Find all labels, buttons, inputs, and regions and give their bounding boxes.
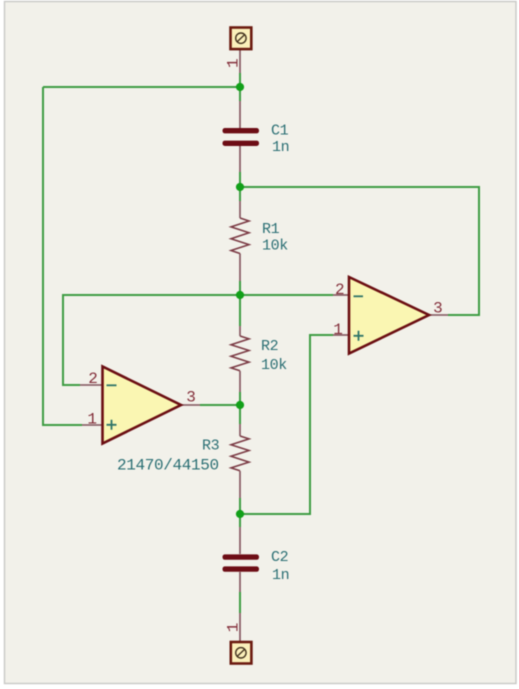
pin R1.1 stub xyxy=(239,201,241,218)
wire top pin to node A xyxy=(239,73,241,87)
svg-text:10k: 10k xyxy=(262,238,288,255)
svg-text:2: 2 xyxy=(88,370,98,388)
svg-text:21470/44150: 21470/44150 xyxy=(117,457,219,475)
junction node E xyxy=(236,510,244,518)
pin U1.3 stub xyxy=(429,314,448,316)
junction node A xyxy=(236,83,244,91)
wire U2 output to node D xyxy=(200,404,240,406)
pin R1.2 stub xyxy=(239,254,241,282)
junction node C xyxy=(236,291,244,299)
wire left vertical to pin1 of U2 xyxy=(43,87,82,425)
U2 minus mark xyxy=(107,384,117,386)
svg-text:C1: C1 xyxy=(271,123,289,140)
pin J2.1 stub xyxy=(239,613,241,642)
op-amp U1 (right) xyxy=(333,277,442,354)
resistor R1 xyxy=(231,218,288,255)
pin U2.3 stub xyxy=(181,404,200,406)
svg-text:R2: R2 xyxy=(261,338,278,355)
pin C1.2 stub xyxy=(239,146,241,172)
svg-text:1: 1 xyxy=(333,321,343,339)
svg-text:1: 1 xyxy=(87,411,97,429)
junction node B xyxy=(236,183,244,191)
resistor R2 xyxy=(231,336,287,374)
svg-text:1: 1 xyxy=(225,58,243,68)
pin U1.2 stub xyxy=(333,294,349,296)
wire net A horizontal xyxy=(43,73,479,613)
svg-text:1n: 1n xyxy=(272,567,289,584)
svg-text:R1: R1 xyxy=(262,221,280,238)
pin U2.2 stub xyxy=(80,384,103,386)
svg-text:R3: R3 xyxy=(202,438,220,455)
svg-text:2: 2 xyxy=(335,281,345,299)
wire node B to R1 xyxy=(239,187,241,201)
U1 minus mark xyxy=(354,295,364,297)
junction node D xyxy=(236,401,244,409)
pin C2.2 stub xyxy=(239,572,241,592)
svg-text:3: 3 xyxy=(186,389,196,407)
resistor R3 xyxy=(117,436,249,475)
wire C2 to bottom pin xyxy=(239,592,241,613)
svg-text:10k: 10k xyxy=(261,357,287,374)
pin C1.1 stub xyxy=(239,101,241,128)
wire node C to left, down to pin2 of U2 xyxy=(63,295,240,385)
wire R2 to node D xyxy=(239,392,241,405)
svg-text:3: 3 xyxy=(433,300,443,318)
wire node C to pin2 of U1 xyxy=(240,294,333,296)
wire node D to R3 xyxy=(239,405,241,424)
U2 plus mark xyxy=(107,420,117,430)
svg-text:1: 1 xyxy=(225,623,243,633)
svg-text:C2: C2 xyxy=(271,549,288,566)
pin R2.2 stub xyxy=(239,371,241,392)
wire A horizontal xyxy=(43,86,240,88)
svg-text:1n: 1n xyxy=(272,139,289,156)
capacitor C1 xyxy=(223,123,290,156)
pin U1.1 stub xyxy=(333,334,349,336)
pin R3.1 stub xyxy=(239,424,241,436)
wire node E to C2 xyxy=(239,514,241,527)
op-amp U2 (left) xyxy=(87,367,195,444)
wire R1 to node C xyxy=(239,281,241,295)
U1 plus mark xyxy=(354,331,364,341)
capacitor C2 xyxy=(223,549,290,584)
connector J1 (top) xyxy=(225,28,252,69)
wire feedback U1 output to node B xyxy=(240,187,479,315)
pin U2.1 stub xyxy=(82,424,103,426)
wire R3 to node E xyxy=(239,498,241,514)
wire C1 to node B xyxy=(239,172,241,187)
pin R2.1 stub xyxy=(239,326,241,336)
pin J1.1 stub xyxy=(239,49,241,73)
wire node C to R2 xyxy=(239,295,241,326)
pin R3.2 stub xyxy=(239,471,241,498)
connector J2 (bottom) xyxy=(225,623,252,664)
wire node E to pin1 of U1 xyxy=(240,335,333,514)
pin C2.1 stub xyxy=(239,527,241,554)
wire node A down xyxy=(239,87,241,101)
pin stubs (dark red) xyxy=(80,49,448,642)
